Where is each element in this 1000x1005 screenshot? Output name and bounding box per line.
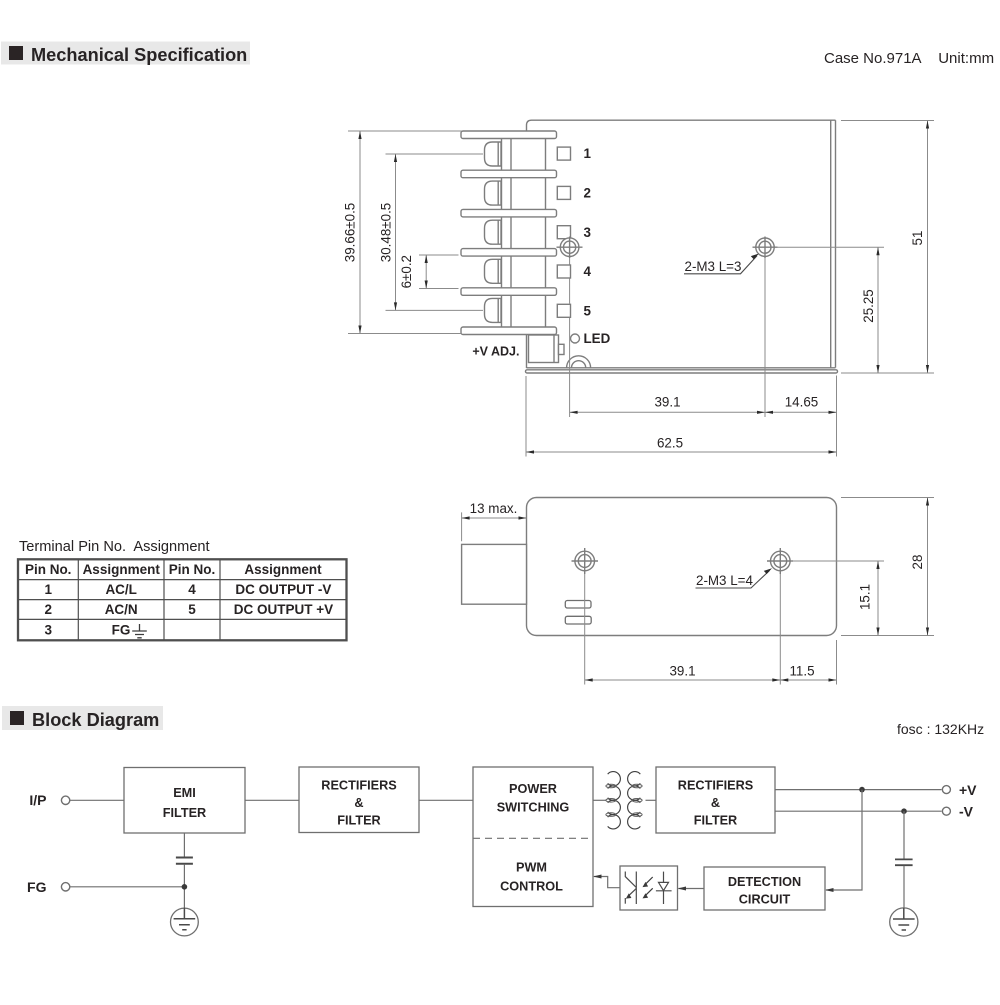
svg-text:51: 51 — [910, 231, 925, 246]
svg-text:62.5: 62.5 — [657, 436, 683, 451]
svg-text:CONTROL: CONTROL — [500, 880, 563, 894]
vent slot 2 — [565, 616, 591, 624]
svg-text:Pin No.: Pin No. — [25, 562, 72, 577]
terminal block vertical lines — [502, 132, 546, 334]
svg-text:5: 5 — [188, 602, 196, 617]
case outline (side) — [527, 498, 837, 636]
optocoupler U1 — [620, 866, 678, 910]
pin square 4 — [557, 265, 570, 278]
svg-text:25.25: 25.25 — [861, 289, 876, 323]
bottom flange — [526, 370, 838, 373]
wire +V output — [775, 789, 942, 791]
case bottom edge — [527, 367, 836, 369]
dimension 28 — [841, 498, 934, 636]
svg-text:PWM: PWM — [516, 861, 547, 875]
dimension 39.1 (fig2) — [585, 679, 781, 681]
svg-text:CIRCUIT: CIRCUIT — [739, 893, 791, 907]
svg-text:11.5: 11.5 — [789, 664, 814, 679]
table grid — [18, 559, 347, 640]
svg-text:Case No.971A Unit:mm: Case No.971A Unit:mm — [824, 50, 994, 67]
section header: Mechanical Specification — [1, 42, 250, 66]
svg-text:&: & — [711, 796, 720, 810]
block RECTIFIERS & FILTER (secondary) — [656, 767, 775, 833]
svg-text:2: 2 — [584, 185, 591, 200]
table row 3 with FG earth symbol — [44, 623, 130, 638]
terminal clamp 4 — [485, 259, 502, 283]
wire I/P to EMI — [70, 799, 124, 801]
earth ground G2 — [890, 908, 918, 937]
wire EMI to rectifiers1 — [245, 799, 299, 801]
svg-text:DETECTION: DETECTION — [728, 875, 801, 889]
block DETECTION CIRCUIT — [704, 867, 825, 910]
svg-text:13 max.: 13 max. — [470, 501, 518, 516]
svg-text:AC/N: AC/N — [105, 602, 138, 617]
terminal clamp 5 — [485, 298, 502, 322]
vent slot 1 — [565, 601, 591, 609]
svg-text:1: 1 — [584, 146, 592, 161]
optocoupler light arrows — [645, 877, 653, 896]
terminal clamp 2 — [485, 181, 502, 205]
svg-text:Assignment: Assignment — [244, 562, 322, 577]
transformer T1 — [606, 772, 642, 829]
svg-text:14.65: 14.65 — [785, 395, 819, 410]
svg-text:39.1: 39.1 — [654, 395, 680, 410]
svg-text:FG: FG — [112, 623, 131, 638]
terminal clamp 3 — [485, 220, 502, 244]
svg-text:Assignment: Assignment — [83, 562, 161, 577]
svg-text:Block Diagram: Block Diagram — [32, 710, 159, 730]
svg-text:I/P: I/P — [29, 792, 46, 808]
svg-text:3: 3 — [44, 623, 52, 638]
case top edge — [527, 120, 836, 368]
mounting hole right (fig2) — [767, 548, 793, 574]
svg-text:FILTER: FILTER — [694, 814, 737, 828]
dimension 13 max. — [462, 512, 527, 541]
extension lines below case (fig1) — [526, 258, 837, 457]
dimension 62.5 — [526, 451, 837, 453]
svg-text:5: 5 — [584, 304, 592, 319]
svg-text:SWITCHING: SWITCHING — [497, 801, 570, 815]
svg-text:&: & — [354, 796, 363, 810]
output terminal -V — [942, 807, 950, 815]
section header: Block Diagram — [2, 706, 163, 730]
+V ADJ potentiometer — [529, 335, 565, 363]
terminal clamp 1 — [485, 142, 502, 166]
pin square 2 — [557, 186, 570, 199]
svg-text:RECTIFIERS: RECTIFIERS — [321, 779, 396, 793]
wire transformer to rectifiers2 — [646, 799, 657, 801]
earth ground G1 — [171, 908, 199, 936]
svg-text:+V: +V — [959, 782, 977, 798]
output terminal +V — [942, 786, 950, 794]
optocoupler LED — [656, 872, 672, 904]
flange mounting bump — [567, 356, 591, 368]
terminal separator bars — [461, 131, 557, 335]
svg-text:RECTIFIERS: RECTIFIERS — [678, 779, 753, 793]
dimension 51 — [841, 121, 934, 374]
LED indicator — [571, 334, 580, 343]
dimension 14.65 — [765, 411, 837, 413]
capacitor C2 (output) — [903, 811, 905, 859]
svg-text:3: 3 — [584, 225, 591, 240]
svg-text:Pin No.: Pin No. — [169, 562, 216, 577]
dimension 39.1 (fig1) — [570, 411, 765, 413]
wire detection to optocoupler — [679, 888, 705, 890]
junction node on +V — [859, 787, 865, 793]
svg-text:4: 4 — [188, 582, 196, 597]
mounting hole right (fig1) — [753, 237, 778, 259]
wire PWM to optocoupler (feedback) — [594, 877, 620, 888]
svg-text:FILTER: FILTER — [163, 806, 206, 820]
wire FG to junction — [70, 886, 184, 888]
wire -V output — [775, 810, 942, 812]
pin square 5 — [557, 304, 570, 317]
svg-text:EMI: EMI — [173, 786, 196, 800]
junction node FG — [182, 884, 188, 890]
dimension 11.5 — [780, 679, 836, 681]
dimension 25.25 — [776, 247, 884, 373]
svg-text:2-M3 L=4: 2-M3 L=4 — [696, 573, 753, 588]
wire rectifiers1 to power switching — [419, 799, 473, 801]
svg-text:4: 4 — [584, 264, 592, 279]
terminal block protrusion — [462, 544, 527, 604]
table header row — [25, 562, 322, 577]
wire power switching to transformer — [593, 799, 606, 801]
svg-text:Terminal Pin No. Assignment: Terminal Pin No. Assignment — [19, 539, 210, 555]
svg-text:fosc : 132KHz: fosc : 132KHz — [897, 721, 984, 737]
svg-text:POWER: POWER — [509, 782, 557, 796]
svg-text:30.48±0.5: 30.48±0.5 — [379, 203, 394, 262]
svg-text:-V: -V — [959, 804, 974, 820]
svg-text:DC OUTPUT -V: DC OUTPUT -V — [235, 582, 331, 597]
svg-text:2: 2 — [44, 602, 52, 617]
pin square 3 — [557, 226, 570, 239]
pin square 1 — [557, 147, 570, 160]
table row 1 — [44, 582, 331, 597]
svg-text:28: 28 — [910, 555, 925, 570]
optocoupler phototransistor — [625, 872, 636, 905]
svg-text:+V ADJ.: +V ADJ. — [472, 345, 519, 359]
wire +V junction down to detection — [826, 790, 862, 890]
dimension 30.48±0.5 — [386, 154, 484, 310]
svg-text:15.1: 15.1 — [858, 584, 873, 610]
dimension 39.66±0.5 — [348, 131, 462, 334]
svg-text:2-M3 L=3: 2-M3 L=3 — [685, 259, 742, 274]
junction node on -V — [901, 808, 907, 814]
svg-text:39.1: 39.1 — [669, 664, 695, 679]
svg-text:6±0.2: 6±0.2 — [399, 255, 414, 288]
svg-text:FG: FG — [27, 879, 47, 895]
svg-text:LED: LED — [584, 331, 611, 346]
svg-text:39.66±0.5: 39.66±0.5 — [343, 203, 358, 262]
block POWER SWITCHING / PWM CONTROL — [473, 767, 593, 907]
block EMI FILTER — [124, 768, 245, 834]
block RECTIFIERS & FILTER (primary) — [299, 767, 419, 833]
dimension 15.1 — [791, 561, 884, 636]
svg-text:DC OUTPUT +V: DC OUTPUT +V — [234, 602, 333, 617]
mounting hole left (fig1) — [557, 237, 583, 259]
svg-text:AC/L: AC/L — [105, 582, 137, 597]
svg-text:Mechanical Specification: Mechanical Specification — [31, 45, 247, 65]
svg-text:FILTER: FILTER — [337, 814, 380, 828]
case right edge double line — [831, 120, 836, 367]
mounting hole left (fig2) — [572, 548, 599, 574]
table row 2 — [44, 602, 333, 617]
svg-text:1: 1 — [44, 582, 52, 597]
capacitor C1 (EMI to FG) — [183, 833, 185, 857]
dimension 6±0.2 — [419, 255, 459, 289]
extension lines below case (fig2) — [585, 574, 837, 685]
